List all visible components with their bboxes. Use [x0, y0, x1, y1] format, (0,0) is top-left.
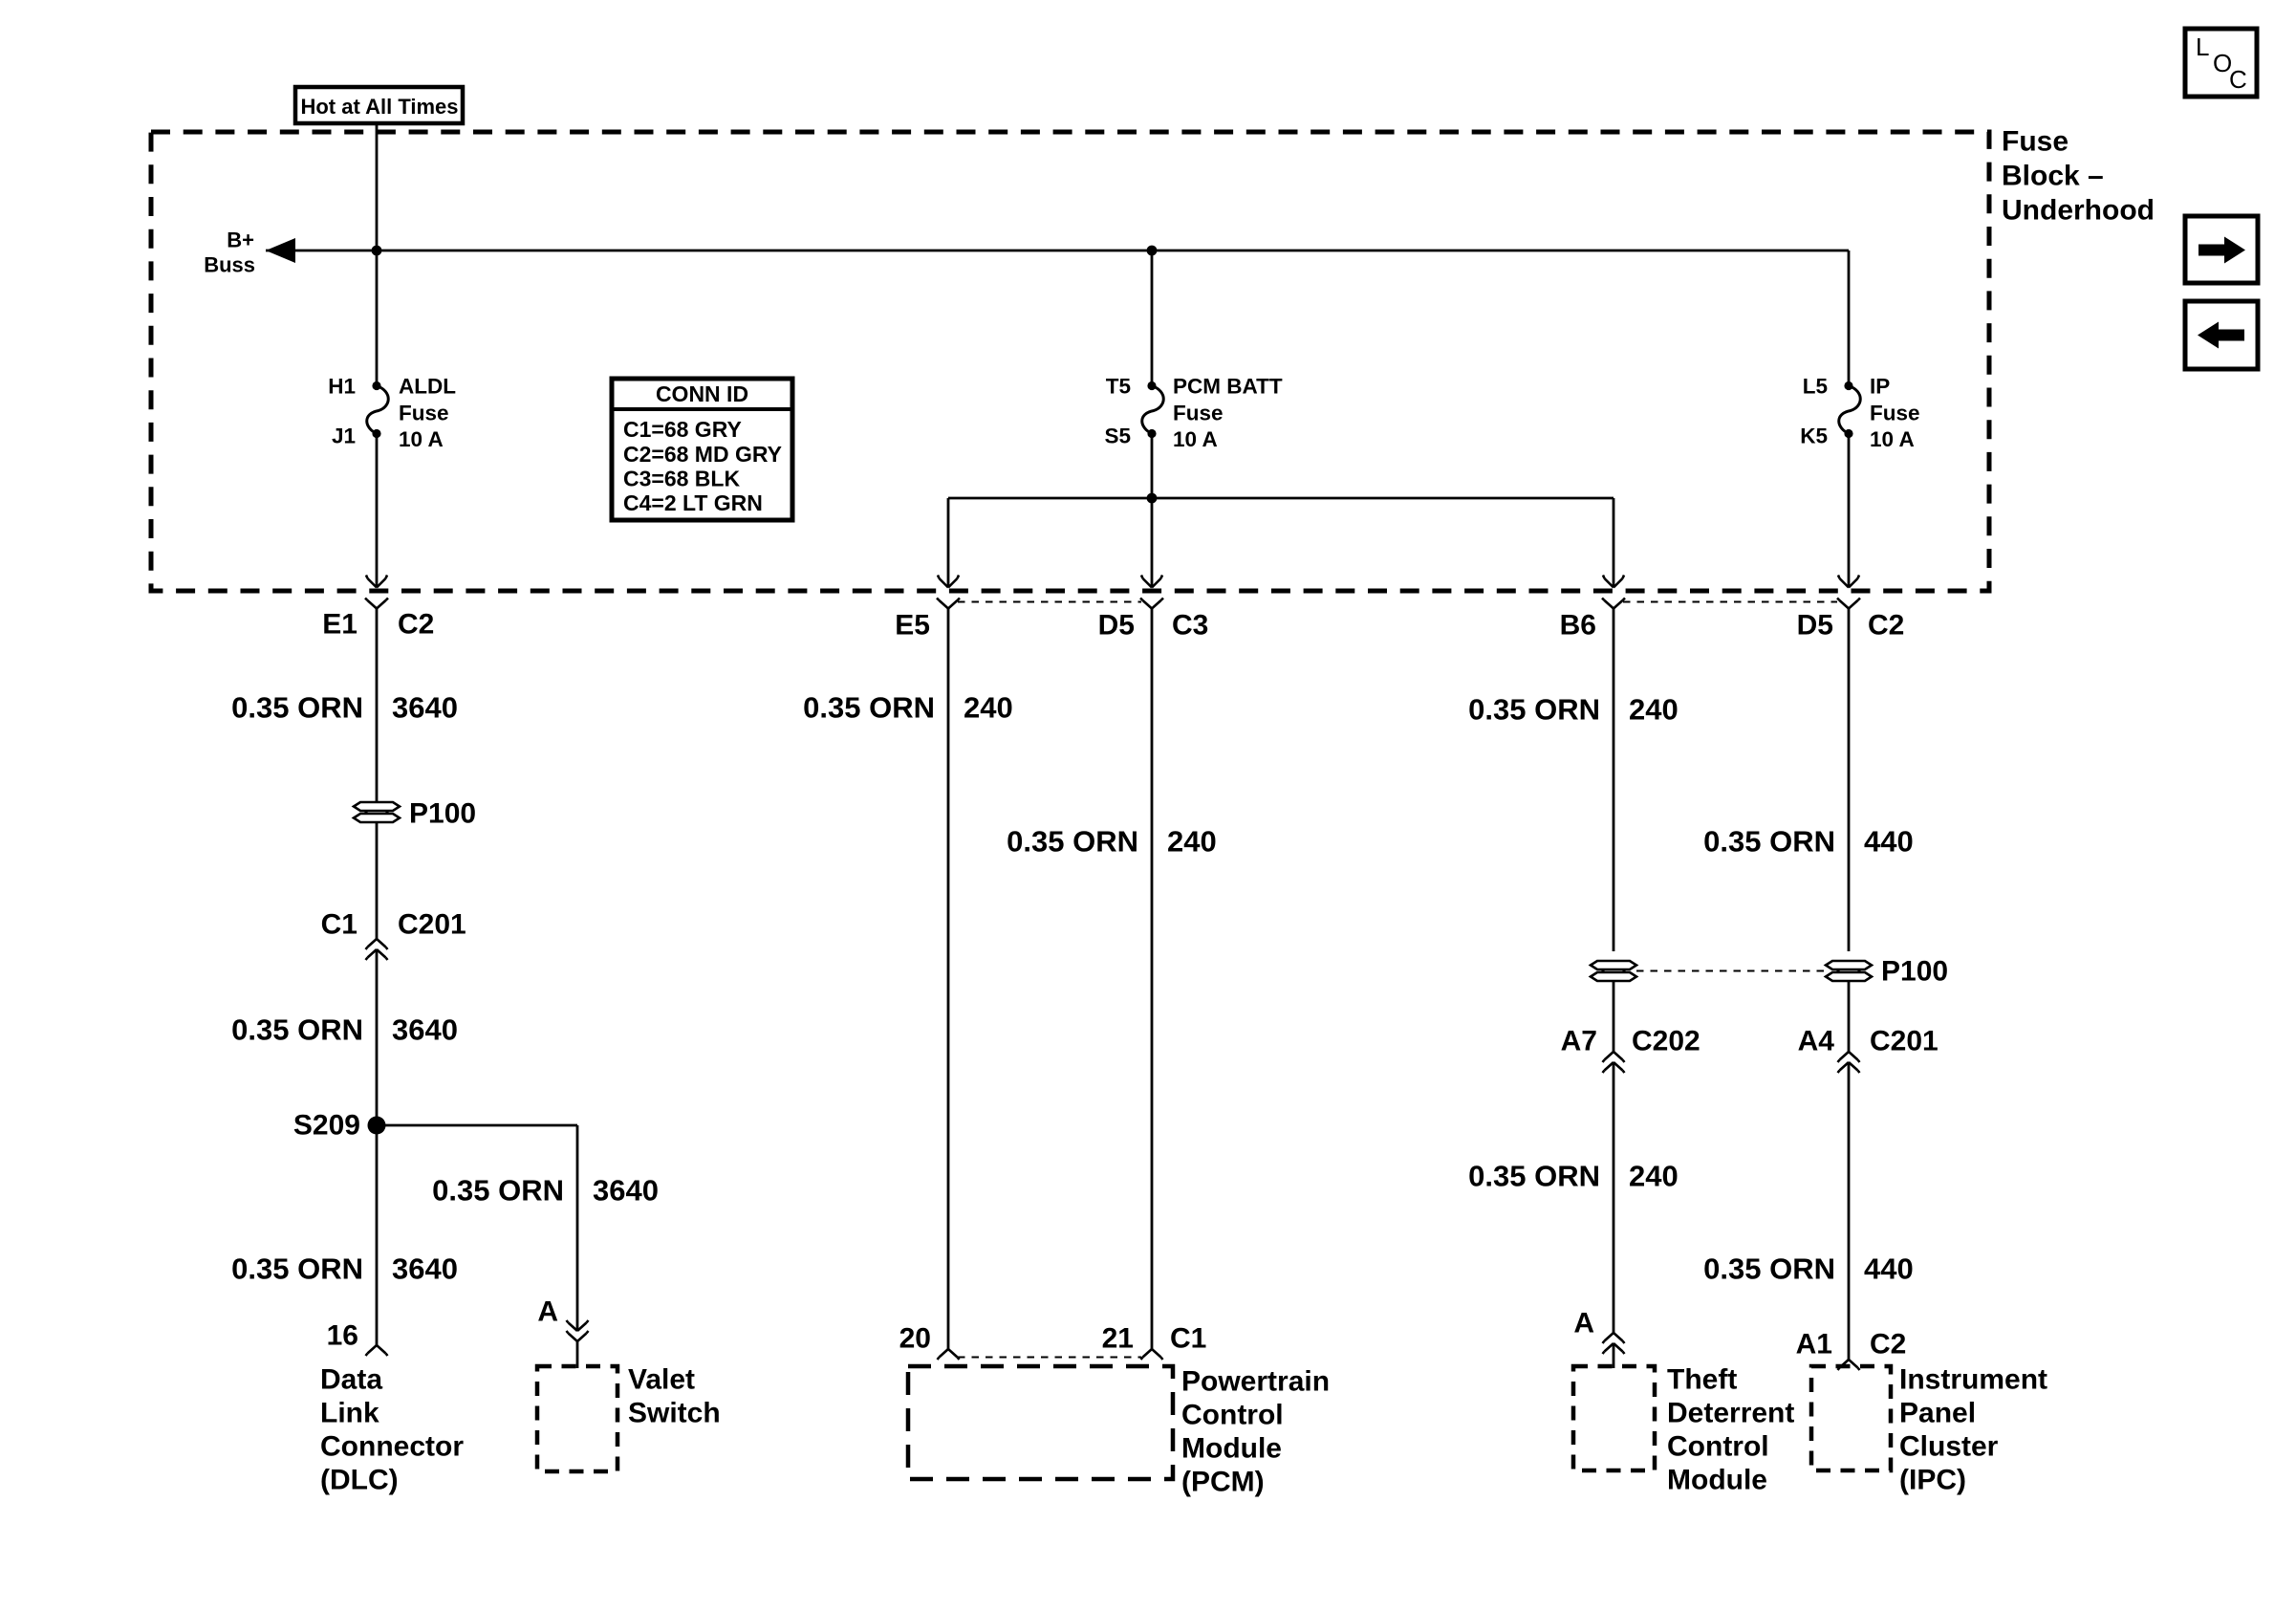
wire: E1 to P100: [376, 609, 379, 803]
label pin A7: [1561, 1026, 1597, 1057]
wire: E5 to PCM pin 20: [947, 609, 950, 1350]
svg-text:Deterrent: Deterrent: [1667, 1398, 1794, 1429]
connector fork D5 (PCM): [1140, 599, 1163, 609]
wire: tap down to D5/C3: [1151, 498, 1154, 586]
svg-text:Switch: Switch: [628, 1398, 721, 1429]
connector A in-line (valet): [567, 1320, 589, 1341]
label IP Fuse 10 A: [1870, 375, 1920, 452]
wire: PCM BATT fuse to distribution node: [1151, 434, 1154, 499]
label pin 20: [899, 1323, 931, 1355]
table: CONN ID: [612, 379, 792, 520]
svg-text:Buss: Buss: [204, 253, 255, 277]
arrow into connector D5 C3: [1141, 576, 1162, 588]
label P100 (right): [1881, 956, 1948, 988]
svg-text:0.35 ORN: 0.35 ORN: [1468, 693, 1600, 727]
svg-text:A4: A4: [1798, 1026, 1835, 1057]
svg-text:C1: C1: [1170, 1323, 1206, 1355]
svg-text:Link: Link: [320, 1398, 379, 1429]
svg-text:240: 240: [1629, 1160, 1679, 1193]
label pin S5: [1104, 425, 1131, 448]
svg-text:C3=68 BLK: C3=68 BLK: [623, 467, 740, 491]
node: splice of ALDL feed on B+ buss: [372, 246, 382, 256]
label pin T5: [1106, 375, 1131, 399]
label pin A (theft): [1573, 1308, 1594, 1339]
svg-text:Cluster: Cluster: [1899, 1431, 1999, 1463]
wire: IP fuse to fuse block edge: [1848, 434, 1851, 587]
svg-text:CONN ID: CONN ID: [656, 381, 748, 406]
label: Powertrain Control Module (PCM): [1181, 1366, 1330, 1498]
label wire 0.35 ORN 440 (upper): [1703, 825, 1914, 859]
fuse PCM BATT 10 A (T5-S5): [1142, 381, 1164, 438]
label wire 0.35 ORN 240 (B6): [1468, 693, 1679, 727]
label pin 16: [327, 1320, 358, 1352]
label pin A (valet): [537, 1296, 558, 1328]
connector fork E5: [937, 599, 960, 609]
fuse ALDL 10 A (H1-J1): [367, 381, 389, 438]
svg-text:Theft: Theft: [1667, 1364, 1737, 1396]
label wire 0.35 ORN 240 (E5): [803, 691, 1013, 725]
svg-text:IP: IP: [1870, 375, 1890, 399]
label wire 0.35 ORN 3640 (upper): [231, 691, 458, 725]
connector A7/C202 in-line: [1603, 1052, 1625, 1073]
wire: C202 to theft module pin A: [1613, 1062, 1615, 1333]
B+ buss wire: [266, 250, 1849, 252]
wire: connector to valet switch box: [576, 1341, 579, 1368]
label wire 0.35 ORN 3640 (lower): [231, 1252, 458, 1286]
label wire 0.35 ORN 240 (D5): [1007, 825, 1217, 859]
arrow into connector B6: [1603, 576, 1624, 588]
svg-text:440: 440: [1864, 825, 1914, 859]
thin dashed connector line pins 20-21: [958, 1357, 1141, 1359]
svg-text:S209: S209: [293, 1110, 360, 1142]
connector pin A1 fork (IPC): [1838, 1360, 1860, 1370]
wire: C201 to IPC pin A1: [1848, 1062, 1851, 1360]
label pin E1: [322, 609, 357, 641]
arrow into connector E5: [938, 576, 959, 588]
label connector C1 (PCM): [1170, 1323, 1206, 1355]
module box: Instrument Panel Cluster: [1811, 1366, 1891, 1470]
svg-text:P100: P100: [409, 798, 476, 830]
wire: D5 to PCM pin 21: [1151, 609, 1154, 1350]
svg-text:C: C: [2229, 65, 2247, 94]
wire: distribution bus to E5 and B6 taps: [948, 497, 1614, 500]
svg-text:Fuse: Fuse: [1173, 402, 1224, 425]
svg-text:Control: Control: [1181, 1400, 1284, 1431]
label: Data Link Connector (DLC): [320, 1364, 464, 1496]
svg-text:3640: 3640: [392, 691, 458, 725]
splice P100 (IPC side): [1826, 961, 1872, 981]
label P100 (left): [409, 798, 476, 830]
wire: S209 to DLC pin 16: [376, 1125, 379, 1345]
svg-text:0.35 ORN: 0.35 ORN: [803, 691, 935, 725]
wire: D5 to P100 (IPC): [1848, 609, 1851, 952]
svg-text:0.35 ORN: 0.35 ORN: [1703, 825, 1835, 859]
wire: B+ buss to PCM BATT fuse: [1151, 250, 1154, 385]
svg-text:Data: Data: [320, 1364, 382, 1396]
svg-text:Connector: Connector: [320, 1431, 464, 1463]
label PCM BATT Fuse 10 A: [1173, 375, 1283, 452]
svg-text:C1: C1: [321, 909, 357, 941]
svg-text:C2: C2: [1870, 1329, 1906, 1361]
label ALDL Fuse 10 A: [399, 375, 456, 452]
module box: Valet Switch: [537, 1366, 617, 1471]
label pin D5 (PCM): [1098, 610, 1135, 642]
label connector C2 (IPC pin): [1870, 1329, 1906, 1361]
wire: B6 to P100: [1613, 609, 1615, 952]
label pin A4: [1798, 1026, 1835, 1057]
svg-text:C2: C2: [398, 609, 434, 641]
label wire 0.35 ORN 440 (lower): [1703, 1252, 1914, 1286]
svg-text:L: L: [2196, 33, 2209, 61]
label connector C201 (IPC): [1870, 1026, 1939, 1057]
svg-text:H1: H1: [328, 375, 356, 399]
svg-text:Block –: Block –: [2002, 161, 2104, 192]
svg-text:0.35 ORN: 0.35 ORN: [1468, 1160, 1600, 1193]
label: Fuse Block - Underhood: [2002, 126, 2155, 227]
wire: connector into theft module box: [1613, 1343, 1615, 1368]
svg-text:(IPC): (IPC): [1899, 1465, 1966, 1496]
svg-text:240: 240: [1629, 693, 1679, 727]
wire: S209 branch to valet switch: [377, 1125, 577, 1331]
svg-text:0.35 ORN: 0.35 ORN: [1703, 1252, 1835, 1286]
wire: P100 to C202: [1613, 981, 1615, 1052]
svg-text:Panel: Panel: [1899, 1398, 1976, 1429]
svg-text:C3: C3: [1172, 610, 1208, 642]
label box: Hot at All Times: [295, 87, 463, 123]
label connector C201 (left): [398, 909, 466, 941]
wire: P100 to C201: [376, 822, 379, 939]
svg-text:Fuse: Fuse: [2002, 126, 2069, 158]
svg-text:10 A: 10 A: [1870, 427, 1915, 451]
svg-text:0.35 ORN: 0.35 ORN: [231, 691, 363, 725]
label pin E5: [895, 610, 930, 642]
svg-text:Instrument: Instrument: [1899, 1364, 2047, 1396]
module box: PCM: [908, 1366, 1173, 1479]
label connector C2 (IPC feed): [1868, 610, 1904, 642]
svg-text:P100: P100: [1881, 956, 1948, 988]
wire: tap down to E5: [947, 498, 950, 586]
svg-text:C201: C201: [1870, 1026, 1939, 1057]
svg-text:B6: B6: [1560, 610, 1596, 642]
B+ buss arrowhead: [266, 238, 295, 263]
svg-text:ALDL: ALDL: [399, 375, 456, 399]
svg-text:C2=68 MD GRY: C2=68 MD GRY: [623, 442, 782, 467]
svg-text:3640: 3640: [392, 1013, 458, 1047]
svg-text:Valet: Valet: [628, 1364, 695, 1396]
nav box: arrow right: [2185, 216, 2258, 283]
label: Theft Deterrent Control Module: [1667, 1364, 1794, 1496]
label pin K5: [1800, 425, 1828, 448]
svg-text:S5: S5: [1104, 425, 1131, 448]
connector pin 16 fork (DLC): [366, 1345, 388, 1356]
wire: hot feed from Hot at All Times box: [376, 123, 379, 385]
label wire 0.35 ORN 3640 (branch): [432, 1174, 659, 1208]
wire: P100 to C201 (IPC): [1848, 981, 1851, 1052]
label pin J1: [332, 425, 356, 448]
svg-text:D5: D5: [1797, 610, 1833, 642]
svg-text:K5: K5: [1800, 425, 1828, 448]
svg-text:PCM BATT: PCM BATT: [1173, 375, 1283, 399]
label B+ Buss: [204, 229, 255, 277]
label connector C3: [1172, 610, 1208, 642]
svg-text:Fuse: Fuse: [1870, 402, 1920, 425]
svg-text:E1: E1: [322, 609, 357, 641]
svg-text:440: 440: [1864, 1252, 1914, 1286]
svg-text:Module: Module: [1181, 1433, 1282, 1465]
wire: C201 to S209: [376, 949, 379, 1125]
label S209: [293, 1110, 360, 1142]
label pin D5 (IPC): [1797, 610, 1833, 642]
thin dashed connector line B6-D5: [1623, 601, 1837, 603]
fuse block outline (dashed): [151, 132, 1989, 591]
svg-text:3640: 3640: [392, 1252, 458, 1286]
wire: tap down to B6: [1613, 498, 1615, 586]
svg-text:A: A: [1573, 1308, 1594, 1339]
wire: ALDL fuse to fuse block edge: [376, 434, 379, 587]
thin dashed connector line E5-D5: [958, 601, 1141, 603]
label pin A1: [1796, 1329, 1832, 1361]
svg-text:E5: E5: [895, 610, 930, 642]
svg-text:D5: D5: [1098, 610, 1135, 642]
svg-text:20: 20: [899, 1323, 931, 1355]
splice P100 (theft side): [1591, 961, 1636, 981]
label connector C202: [1632, 1026, 1700, 1057]
svg-text:Powertrain: Powertrain: [1181, 1366, 1330, 1398]
svg-text:J1: J1: [332, 425, 356, 448]
svg-text:240: 240: [964, 691, 1013, 725]
label pin L5: [1803, 375, 1828, 399]
label pin 21: [1102, 1323, 1134, 1355]
svg-text:Underhood: Underhood: [2002, 195, 2155, 227]
svg-text:21: 21: [1102, 1323, 1134, 1355]
connector A in-line (theft): [1603, 1333, 1625, 1354]
thin dashed line between P100 halves: [1636, 970, 1826, 972]
connector fork D5/C2 (IPC): [1837, 599, 1860, 609]
svg-text:C4=2 LT GRN: C4=2 LT GRN: [623, 490, 763, 515]
label wire 0.35 ORN 3640 (middle): [231, 1013, 458, 1047]
svg-text:C1=68 GRY: C1=68 GRY: [623, 417, 742, 442]
connector A4/C201 in-line: [1838, 1052, 1860, 1073]
label: Valet Switch: [628, 1364, 721, 1429]
fuse IP 10 A (L5-K5): [1839, 381, 1861, 438]
module box: Theft Deterrent Control Module: [1573, 1366, 1655, 1470]
nav box: arrow left: [2185, 301, 2258, 369]
label pin B6: [1560, 610, 1596, 642]
svg-text:(PCM): (PCM): [1181, 1467, 1265, 1498]
svg-text:0.35 ORN: 0.35 ORN: [432, 1174, 564, 1208]
connector C1/C201 in-line: [366, 939, 388, 960]
connector fork E1/C2: [365, 599, 388, 609]
wire: B+ buss right end down to IP fuse: [1848, 250, 1851, 385]
arrow into connector E1: [366, 576, 387, 588]
svg-text:A7: A7: [1561, 1026, 1597, 1057]
svg-text:3640: 3640: [593, 1174, 659, 1208]
svg-text:L5: L5: [1803, 375, 1828, 399]
label pin H1: [328, 375, 356, 399]
svg-text:Fuse: Fuse: [399, 402, 449, 425]
node: splice of PCM BATT feed on B+ buss: [1147, 246, 1158, 256]
connector pin 20 fork: [938, 1349, 960, 1360]
svg-text:A1: A1: [1796, 1329, 1832, 1361]
svg-text:0.35 ORN: 0.35 ORN: [231, 1013, 363, 1047]
svg-text:10 A: 10 A: [1173, 427, 1218, 451]
svg-text:A: A: [537, 1296, 558, 1328]
svg-text:Hot at All Times: Hot at All Times: [300, 95, 458, 119]
label pin C1: [321, 909, 357, 941]
splice S209: [368, 1117, 386, 1135]
label wire 0.35 ORN 240 (theft): [1468, 1160, 1679, 1193]
svg-text:0.35 ORN: 0.35 ORN: [1007, 825, 1138, 859]
label connector C2 (DLC feed): [398, 609, 434, 641]
legend box LOC: [2185, 29, 2257, 97]
connector fork B6: [1602, 599, 1625, 609]
connector pin 21 fork: [1141, 1349, 1163, 1360]
svg-text:C201: C201: [398, 909, 466, 941]
svg-text:10 A: 10 A: [399, 427, 444, 451]
arrow into connector D5 C2: [1838, 576, 1859, 588]
label: Instrument Panel Cluster (IPC): [1899, 1364, 2047, 1496]
svg-text:0.35 ORN: 0.35 ORN: [231, 1252, 363, 1286]
svg-text:240: 240: [1167, 825, 1217, 859]
svg-text:T5: T5: [1106, 375, 1131, 399]
svg-text:C2: C2: [1868, 610, 1904, 642]
svg-text:Module: Module: [1667, 1465, 1767, 1496]
svg-text:Control: Control: [1667, 1431, 1769, 1463]
node: distribution splice: [1147, 493, 1158, 504]
svg-text:C202: C202: [1632, 1026, 1700, 1057]
svg-text:(DLC): (DLC): [320, 1465, 399, 1496]
splice P100 (left): [354, 802, 400, 822]
svg-text:B+: B+: [227, 229, 254, 252]
svg-text:16: 16: [327, 1320, 358, 1352]
